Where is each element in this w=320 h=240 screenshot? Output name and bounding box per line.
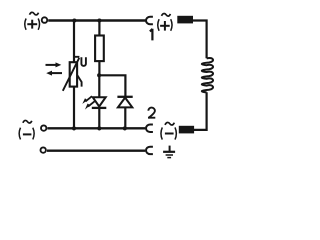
wire node to diode branch bbox=[99, 75, 125, 97]
wire top bus bbox=[48, 19, 145, 21]
wire pin to corner bbox=[193, 21, 207, 59]
socket 2 bbox=[146, 125, 153, 132]
resistor R body bbox=[95, 36, 104, 62]
wire coil to pin2 bbox=[194, 92, 207, 130]
diode D2 bottom lead bbox=[124, 107, 126, 128]
LED D1 triangle bbox=[93, 97, 106, 106]
socket 1 bbox=[146, 17, 153, 24]
wire varistor top lead bbox=[73, 21, 75, 63]
label (~+) top-left bbox=[25, 12, 40, 29]
pin (-) plug bbox=[179, 126, 194, 134]
LED D1 emission arrow upper bbox=[82, 96, 92, 104]
terminal circle top-left (+) bbox=[42, 17, 48, 23]
varistor RV (U) body bbox=[70, 62, 77, 86]
wire varistor bottom lead bbox=[73, 87, 75, 129]
wire resistor bottom lead bbox=[98, 61, 100, 75]
varistor thermal-disconnect leg bbox=[77, 75, 81, 86]
node dot resistor top bbox=[97, 18, 101, 22]
node dot diode bottom bbox=[123, 126, 127, 130]
ground symbol bbox=[163, 146, 175, 158]
socket ground bbox=[146, 147, 153, 154]
LED D1 cathode bar bbox=[92, 107, 107, 109]
node dot mid bbox=[97, 73, 101, 77]
LED D1 emission arrow lower bbox=[85, 101, 95, 109]
node dot LED bottom bbox=[97, 126, 101, 130]
label 1 bbox=[150, 29, 153, 41]
diode D2 cathode bar bbox=[117, 96, 132, 98]
label (~-) bottom-mid bbox=[161, 122, 176, 139]
pin (+) plug bbox=[177, 16, 193, 24]
label (~-) left bbox=[19, 120, 34, 139]
wire ground row bbox=[47, 150, 145, 152]
diode D2 triangle bbox=[118, 98, 132, 108]
label U bbox=[81, 57, 86, 66]
wire bottom bus bbox=[47, 127, 145, 129]
arrow right-pointing (indicator) bbox=[46, 62, 62, 67]
LED D1 bottom lead bbox=[98, 108, 100, 128]
inductor L coil bbox=[202, 58, 213, 92]
LED D1 anode lead bbox=[98, 75, 100, 97]
label (~+) top-right bbox=[158, 14, 172, 31]
terminal circle left (-) bbox=[41, 125, 46, 130]
node dot varistor bottom bbox=[72, 126, 76, 130]
node dot varistor top bbox=[72, 18, 76, 22]
arrow left-pointing (indicator) bbox=[46, 71, 62, 76]
wire resistor top lead bbox=[98, 21, 100, 36]
varistor diagonal stroke bbox=[63, 57, 80, 91]
label 2 bbox=[148, 108, 155, 118]
terminal circle ground row bbox=[41, 147, 46, 152]
